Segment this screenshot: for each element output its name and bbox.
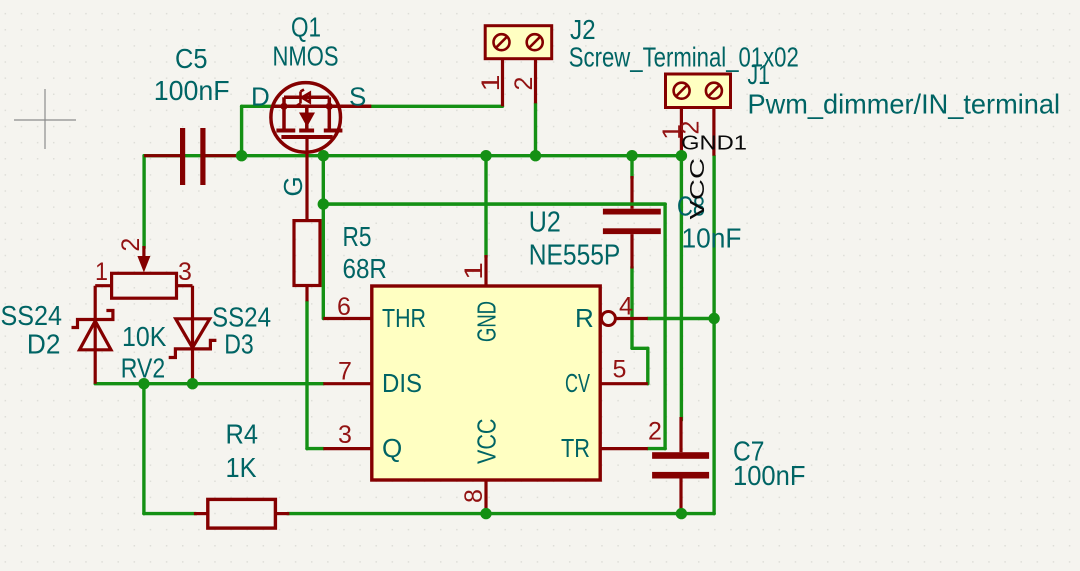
svg-text:100nF: 100nF: [154, 75, 230, 106]
capacitor C8: [603, 209, 661, 234]
pin 1 GND: [484, 255, 487, 286]
svg-text:3: 3: [178, 258, 192, 286]
wire R5 bottom to Q pin: [305, 301, 308, 448]
svg-text:7: 7: [338, 357, 352, 385]
connector J1: [666, 74, 731, 108]
junction R wire / VCC column: [708, 313, 719, 324]
svg-text:1: 1: [477, 75, 505, 92]
svg-text:2: 2: [648, 417, 662, 445]
svg-text:2: 2: [117, 238, 145, 252]
wire THR-TR horizontal at y204: [323, 202, 665, 205]
wire left column diodes to bottom bus: [142, 384, 145, 514]
svg-text:D2: D2: [27, 329, 61, 360]
IC U2 NE555P body: [372, 286, 600, 480]
diode D3: [169, 286, 217, 384]
svg-text:TR: TR: [561, 433, 590, 463]
pin 5 CV: [600, 382, 648, 385]
svg-text:C5: C5: [175, 43, 208, 74]
svg-text:R: R: [575, 303, 594, 333]
Q1 gate pin: [305, 137, 308, 221]
svg-text:10K: 10K: [122, 321, 167, 352]
U2 pins: [323, 255, 648, 514]
svg-text:R4: R4: [226, 419, 259, 450]
svg-text:8: 8: [460, 489, 488, 503]
wire VCC column J1 pin2 down to bottom bus: [712, 156, 715, 514]
junction bus/J2 pin2: [530, 150, 541, 161]
wire bus to C8 top: [630, 156, 633, 178]
J1 pin 2: [712, 108, 715, 156]
wire C8 bottom to CV jog: [630, 267, 633, 348]
svg-text:GND1: GND1: [681, 132, 747, 155]
potentiometer RV2: [112, 273, 177, 298]
svg-text:VCC: VCC: [472, 419, 502, 465]
svg-text:10nF: 10nF: [682, 222, 742, 253]
J1 pin 1: [680, 108, 683, 156]
junction bus/J1 pin1: [676, 150, 687, 161]
Q1 channel bars: [276, 131, 342, 138]
svg-text:6: 6: [337, 293, 351, 321]
junction diode wire / D3: [187, 378, 198, 389]
Q1 body-diode mark: [297, 90, 310, 106]
svg-text:4: 4: [619, 293, 633, 321]
transistor Q1 NMOS: [271, 83, 371, 153]
junction bus/C8: [626, 150, 637, 161]
svg-text:GND: GND: [472, 301, 502, 342]
wire bottom VCC bus right of R4: [288, 512, 715, 515]
svg-text:Q1: Q1: [291, 12, 321, 43]
svg-text:1: 1: [460, 262, 488, 280]
svg-text:D3: D3: [224, 329, 254, 360]
svg-text:1K: 1K: [226, 452, 258, 483]
svg-text:U2: U2: [529, 207, 561, 239]
pin 7 DIS: [323, 382, 372, 385]
svg-text:5: 5: [613, 356, 627, 384]
wire TR stub: [648, 447, 665, 450]
svg-text:NE555P: NE555P: [529, 240, 621, 272]
svg-text:SS24: SS24: [1, 300, 63, 331]
svg-text:1: 1: [95, 258, 108, 286]
resistor R5: [294, 221, 320, 286]
wire bottom VCC bus left of R4: [144, 512, 196, 515]
J2 pin 2: [534, 59, 537, 104]
svg-text:2: 2: [510, 77, 538, 91]
wire GND bus horizontal: [144, 154, 681, 157]
pin 8 VCC: [484, 480, 487, 514]
connector J2: [485, 26, 552, 59]
J2 pin 1: [501, 59, 504, 107]
Q1 terminal dots and arrow: [280, 103, 333, 127]
svg-text:Pwm_dimmer/IN_terminal: Pwm_dimmer/IN_terminal: [748, 89, 1061, 120]
junction bus/GND pin: [480, 150, 491, 161]
svg-text:R5: R5: [343, 221, 372, 252]
svg-text:100nF: 100nF: [733, 460, 806, 491]
svg-text:G: G: [278, 176, 308, 196]
svg-text:Q: Q: [382, 433, 402, 463]
svg-text:S: S: [349, 82, 366, 112]
svg-text:VCC: VCC: [686, 158, 709, 220]
wire C5 left to RV2 wiper: [142, 156, 145, 248]
svg-text:68R: 68R: [343, 253, 387, 284]
resistor R4: [208, 499, 276, 528]
svg-text:D: D: [251, 82, 270, 112]
svg-text:DIS: DIS: [382, 368, 422, 398]
svg-text:NMOS: NMOS: [273, 41, 339, 72]
wire THR-TR horizontal at y204 (overlay): [323, 202, 665, 205]
junction bus/D: [236, 150, 247, 161]
svg-text:J1: J1: [748, 59, 771, 90]
pin 6 THR: [323, 317, 372, 320]
pin 4 R with bubble: [601, 312, 615, 326]
wire TR column: [663, 204, 666, 449]
wire diode bottom horizontal to DIS: [95, 382, 323, 385]
wire D of Q1 down to bus: [242, 105, 273, 108]
pin 2 TR: [600, 447, 648, 450]
wire bus to THR column: [322, 156, 325, 319]
wire bus to U2 GND pin: [484, 156, 487, 257]
junction bottom bus / pin8: [480, 508, 491, 519]
capacitor C7: [652, 452, 709, 478]
wire bus junction down to C7 top: [680, 156, 683, 420]
junction diode wire / left column: [138, 378, 149, 389]
svg-text:THR: THR: [382, 303, 426, 333]
capacitor C5: [144, 154, 242, 157]
pin 3 Q: [323, 447, 372, 450]
junction bottom bus / C7: [676, 508, 687, 519]
svg-text:CV: CV: [565, 368, 590, 398]
junction THR column / y204 wire: [318, 198, 329, 209]
wire R pin to VCC column: [648, 317, 714, 320]
wire S of Q1 to J2 pin1: [371, 105, 502, 108]
diode D2: [72, 286, 113, 384]
wire J2 pin2 to bus: [534, 103, 537, 155]
junction bus/THR column: [318, 150, 329, 161]
sheet origin crosshair: [14, 89, 76, 149]
svg-text:3: 3: [338, 421, 352, 449]
